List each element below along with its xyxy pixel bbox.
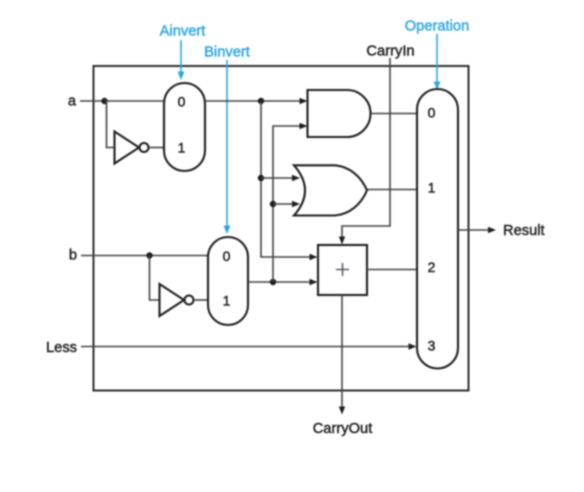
svg-text:1: 1 [223,293,231,309]
wire input b [81,255,208,257]
label Result [503,223,545,239]
svg-text:1: 1 [178,140,186,156]
wire adder output to mux input 2 [367,269,417,271]
svg-text:Operation: Operation [405,19,470,35]
node a-mux output junction [258,98,264,104]
wire b branch up to OR and AND [273,123,308,282]
svg-text:CarryIn: CarryIn [366,44,414,60]
wire b-mux output to adder [248,279,318,285]
label Operation [405,19,470,35]
node b branch junction at OR [270,201,276,207]
svg-text:b: b [69,248,77,264]
wire a to inverter [105,101,115,148]
node a branch junction at OR [258,175,264,181]
svg-text:0: 0 [178,94,186,110]
wire b to inverter [150,256,160,301]
mux Binvert (2:1) [208,237,248,325]
wire CarryOut drop [339,295,345,415]
node b-mux output junction [270,279,276,285]
label CarryOut [313,421,373,437]
svg-text:0: 0 [223,248,231,264]
OR gate [294,165,367,215]
wire a branch into OR input 1 [261,175,300,181]
svg-text:Ainvert: Ainvert [160,24,206,40]
Binvert control arrow [224,60,231,234]
svg-text:Binvert: Binvert [204,45,250,61]
wire Less to mux input 3 [81,343,417,349]
svg-text:CarryOut: CarryOut [313,421,373,437]
svg-text:0: 0 [428,105,436,121]
label a [68,94,77,110]
Ainvert control arrow [178,40,185,80]
node a junction [101,98,107,104]
wire OR output to mux input 1 [367,189,417,191]
wire b branch into OR input 2 [273,201,300,207]
label CarryIn [366,44,414,60]
wire AND output to mux input 0 [371,113,418,115]
wire inverter a output to mux [149,147,165,149]
inverter (b NOT gate) [160,284,194,316]
wire Result output [458,227,496,233]
Operation control arrow [434,34,441,90]
label b [69,248,77,264]
label Ainvert [160,24,206,40]
mux Ainvert (2:1) [164,83,205,171]
svg-text:Result: Result [503,223,545,239]
wire CarryIn vertical drop [339,58,390,245]
wire inverter b output to mux [194,299,209,301]
wire input a [80,100,164,102]
svg-text:3: 3 [428,338,436,354]
svg-text:Less: Less [46,340,77,356]
wire a-mux output to AND [205,98,308,104]
inverter (a NOT gate) [115,132,149,164]
adder (+) box [318,245,367,295]
label Binvert [204,45,250,61]
label Less [46,340,77,356]
node b junction [146,252,152,258]
mux Operation (4:1) [417,89,458,369]
AND gate [308,90,371,137]
ALU enclosure box [94,66,469,391]
svg-text:2: 2 [428,259,436,275]
wire a branch down to OR and adder [261,101,318,260]
svg-text:1: 1 [428,180,436,196]
svg-text:a: a [68,94,77,110]
